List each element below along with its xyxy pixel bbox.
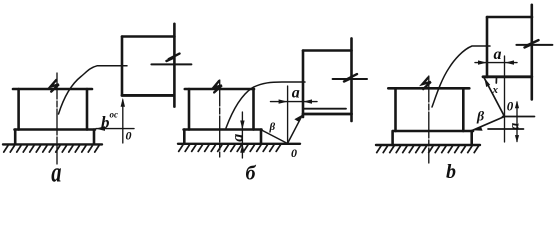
figure v: break squiggle on wall edge — [525, 40, 539, 47]
figure b: existing building wall right edge — [350, 38, 353, 121]
figure v: slope ray from point 0 to footing corner — [472, 117, 504, 131]
figure b: floor break line of existing building — [333, 78, 367, 80]
svg-text:а: а — [494, 46, 502, 63]
figure a: vertical centerline axis — [56, 73, 58, 164]
svg-text:х: х — [492, 84, 499, 96]
figure a: break squiggle on wall edge — [167, 54, 180, 61]
figure b: ground hatching — [179, 145, 281, 152]
figure v: column top line — [388, 87, 469, 90]
figure b: arrow on steep ray — [294, 115, 302, 122]
svg-text:β: β — [269, 121, 276, 133]
figure v: existing foundation left edge — [486, 17, 489, 77]
figure v: footing top line — [393, 130, 473, 133]
figure b: footing top line — [184, 128, 262, 131]
figure b: upper ledge line of existing foundation — [304, 108, 347, 110]
figure b: existing foundation left edge — [302, 51, 305, 118]
figure v: existing foundation bottom line — [483, 75, 532, 78]
figure v: vertical centerline axis — [428, 76, 430, 163]
figure v: column right wall — [462, 88, 465, 131]
svg-text:б: б — [246, 163, 257, 185]
svg-text:а: а — [292, 84, 300, 101]
figure b: slope line from footing corner to point 0 — [262, 130, 288, 144]
figure b: up arrow at footing bottom — [240, 144, 244, 153]
figure a: existing building wall right edge — [173, 24, 176, 107]
figure a: existing foundation bottom line — [122, 94, 173, 97]
figure v: existing building wall right edge — [530, 5, 533, 100]
figure a: leader curve to existing building — [59, 66, 128, 114]
figure a: ground line — [3, 143, 102, 145]
figure v: break squiggle on centerline — [423, 78, 431, 90]
figure b: footing right edge — [260, 130, 263, 144]
figure a: up dimension arrow — [121, 98, 125, 107]
figure b: existing foundation bottom line — [303, 113, 352, 116]
figure v: footing left edge — [391, 131, 394, 145]
figure b: down arrow at footing top — [240, 121, 244, 130]
figure v: stub tick below foundation bottom — [495, 78, 497, 84]
figure v: down arrow at datum line — [515, 101, 519, 109]
figure b: break squiggle on wall edge — [344, 74, 357, 81]
figure b: dimension line for gap a — [271, 101, 318, 103]
figure v: leader curve to existing building — [432, 46, 490, 107]
figure v: datum level line at point 0 — [503, 116, 535, 118]
figure a: new foundation column top line — [13, 88, 92, 91]
figure v: arrow on steep ray — [484, 78, 490, 87]
figure b: footing height dimension shaft — [241, 112, 243, 158]
figure b: column top line — [185, 88, 254, 91]
figure b: leader curve to existing building — [226, 82, 305, 128]
figure b: gap a left arrow — [279, 99, 288, 103]
figure a: floor break line of existing building — [151, 63, 191, 65]
figure v: ground hatching — [377, 146, 479, 153]
figure b: column right wall — [252, 89, 255, 130]
figure v: column left wall — [394, 88, 397, 131]
figure a: column right wall — [86, 89, 89, 130]
figure a: vertical dimension line at wall axis — [122, 100, 124, 143]
svg-text:а: а — [229, 134, 246, 142]
figure v: gap a right arrow — [505, 60, 514, 64]
svg-text:b: b — [101, 113, 110, 132]
figure v: ground line — [376, 144, 480, 146]
figure v: arrow on slope ray — [472, 127, 482, 131]
figure a: existing foundation left edge — [121, 37, 124, 96]
figure a: footing right edge — [93, 130, 96, 145]
figure a: break squiggle on centerline — [51, 80, 59, 92]
svg-text:0: 0 — [291, 146, 297, 160]
svg-text:β: β — [476, 110, 485, 125]
figure b: ground line — [178, 143, 300, 145]
svg-text:0: 0 — [126, 129, 132, 143]
svg-text:0: 0 — [507, 99, 514, 114]
svg-text:а: а — [51, 157, 61, 188]
figure v: depth dimension shaft — [516, 102, 518, 142]
figure b: break squiggle on centerline — [214, 81, 222, 92]
figure a: left dimension arrow — [96, 126, 106, 131]
svg-text:а: а — [508, 123, 523, 130]
figure a: horizontal dimension line b_oc — [96, 128, 134, 130]
figure b: vertical centerline axis — [219, 80, 221, 157]
figure v: footing right edge — [470, 131, 473, 145]
figure v: dimension line for gap a — [475, 62, 517, 64]
figure v: existing foundation top line — [487, 16, 532, 19]
figure b: footing left edge — [183, 130, 186, 144]
figure v: up arrow at footing level line — [515, 135, 519, 143]
figure b: existing foundation top line — [303, 49, 352, 52]
figure v: vertical line through point 0 — [504, 56, 506, 142]
figure a: footing top line — [15, 128, 96, 131]
figure b: vertical line through point 0 — [287, 86, 289, 144]
figure v: gap a left arrow — [478, 60, 487, 64]
figure a: footing left edge — [14, 130, 17, 145]
figure v: steep ray from existing foundation corner to point 0 — [484, 78, 505, 117]
figure v: floor break line of existing building — [516, 44, 552, 46]
figure a: ground hatching — [4, 146, 99, 153]
figure b: steep ray from point 0 to existing foundation corner — [288, 115, 303, 144]
figure v: footing top level line extended — [488, 128, 524, 130]
svg-text:ос: ос — [110, 110, 119, 120]
figure a: column left wall — [17, 89, 20, 130]
figure b: gap a right arrow — [303, 99, 312, 103]
figure a: existing foundation top line — [122, 35, 174, 38]
figure b: column left wall — [188, 89, 191, 130]
svg-text:b: b — [446, 161, 456, 183]
